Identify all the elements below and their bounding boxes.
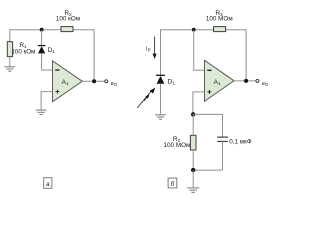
capacitor C1 — [217, 137, 228, 141]
wire non-inverting branch — [193, 92, 205, 115]
node network top — [191, 112, 195, 116]
wire network top — [193, 114, 223, 137]
wire non-inverting to ground — [41, 92, 52, 110]
wire R2 top lead — [192, 114, 194, 135]
wire capacitor bottom lead — [222, 141, 224, 170]
op-amp A1 — [53, 61, 83, 102]
ground below non-inverting input — [36, 110, 47, 114]
wire R2 bottom lead — [192, 150, 194, 170]
light arrow short — [144, 94, 149, 101]
wire inverting branch — [194, 30, 205, 71]
wire output — [234, 80, 256, 82]
node output junction — [244, 79, 248, 83]
wire output — [82, 80, 105, 82]
wire to ground — [192, 170, 194, 187]
svg-text:100 кОм: 100 кОм — [11, 48, 35, 55]
wire top feedback left segment — [161, 30, 214, 76]
light arrow long — [137, 88, 155, 108]
svg-text:б: б — [171, 180, 175, 188]
svg-text:100 кОм: 100 кОм — [56, 16, 80, 23]
node network bottom — [191, 168, 195, 172]
svg-text:O: O — [265, 82, 269, 87]
label b box — [168, 178, 177, 188]
wire top feedback right segment — [226, 30, 247, 81]
svg-text:100 МОм: 100 МОм — [206, 16, 233, 23]
ground below D1 — [155, 115, 166, 119]
wire D1 branch top — [41, 30, 43, 46]
terminal eO — [105, 80, 108, 83]
resistor R2 — [61, 27, 73, 32]
resistor R1 — [7, 42, 12, 57]
svg-text:O: O — [114, 82, 118, 87]
svg-text:0,1 мкФ: 0,1 мкФ — [229, 139, 252, 146]
wire top feedback left segment — [10, 30, 61, 42]
svg-text:100 МОм: 100 МОм — [164, 142, 191, 149]
ground below R1 — [4, 67, 15, 71]
wire network bottom — [193, 169, 222, 171]
node junction D1 top — [40, 28, 44, 32]
current arrow Ip — [146, 37, 157, 60]
ground below network — [187, 188, 199, 192]
node output junction — [92, 79, 96, 83]
terminal eO — [256, 79, 259, 82]
resistor R3 — [214, 27, 226, 32]
node junction inverting branch — [192, 28, 196, 32]
svg-text:а: а — [46, 181, 50, 188]
wire D1 to inverting input — [42, 53, 53, 70]
resistor R2 — [190, 135, 196, 150]
photodiode D1 — [156, 75, 165, 84]
svg-text:P: P — [148, 47, 151, 52]
op-amp A1 — [205, 60, 235, 101]
diode D1 — [38, 46, 46, 54]
label a box — [44, 178, 52, 189]
wire D1 bottom — [160, 84, 162, 115]
wire top feedback right segment — [73, 30, 94, 82]
wire R1 bottom — [9, 57, 11, 67]
